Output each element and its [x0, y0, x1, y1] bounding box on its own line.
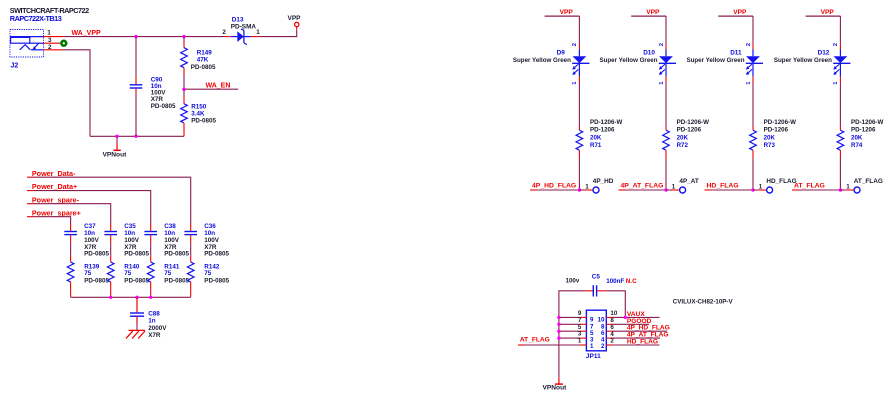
- capacitor C37: [64, 224, 77, 256]
- svg-text:PD-1206: PD-1206: [764, 127, 789, 134]
- value label C35: [124, 223, 149, 258]
- wire VPP to D10: [665, 16, 667, 44]
- value label R72: [677, 119, 709, 149]
- junction at R149 top: [182, 35, 185, 38]
- svg-text:VPP: VPP: [560, 9, 574, 16]
- LED D9: [572, 50, 589, 77]
- resistor R141: [147, 256, 154, 297]
- svg-text:75: 75: [204, 270, 212, 277]
- value label R140: [124, 263, 149, 284]
- capacitor C90: [130, 37, 143, 137]
- resistor R139: [67, 256, 74, 297]
- svg-text:VPP: VPP: [646, 9, 660, 16]
- resistor R149: [181, 37, 188, 90]
- wire JP11 pin 9 to bus: [559, 316, 581, 318]
- svg-text:D10: D10: [643, 50, 655, 57]
- wire C5 to JP11 pin 10: [606, 291, 625, 318]
- svg-text:4P_HD_FLAG: 4P_HD_FLAG: [532, 183, 576, 190]
- svg-text:HD_FLAG: HD_FLAG: [627, 339, 658, 346]
- svg-text:4P_AT: 4P_AT: [679, 178, 699, 185]
- svg-text:C5: C5: [592, 273, 601, 280]
- wire 4P_HD_FLAG: [530, 189, 537, 191]
- svg-text:Power_spare-: Power_spare-: [32, 195, 80, 204]
- svg-text:75: 75: [84, 270, 92, 277]
- svg-text:AT_FLAG: AT_FLAG: [794, 183, 825, 190]
- svg-text:100nF: 100nF: [606, 278, 624, 285]
- svg-text:20K: 20K: [851, 134, 863, 141]
- svg-text:1: 1: [759, 183, 763, 190]
- wire D10 to R72: [665, 83, 667, 126]
- capacitor C35: [104, 224, 117, 256]
- svg-text:PD-0805: PD-0805: [151, 103, 176, 110]
- pin stub D12 pin 2: [839, 44, 841, 50]
- wire AT_FLAG: [792, 189, 799, 191]
- resistor R71: [576, 126, 583, 190]
- wire D13 to VPP port: [259, 29, 297, 36]
- wire JP11 pin 2 net HD_FLAG: [613, 344, 660, 346]
- svg-text:1: 1: [578, 338, 582, 345]
- value label C88: [148, 310, 167, 338]
- wire JP11 pin 5 to bus: [559, 330, 581, 332]
- pin stub JP11 pin 7: [581, 323, 587, 325]
- svg-text:WA_VPP: WA_VPP: [72, 30, 102, 37]
- pin stub JP11 pin 10: [606, 316, 612, 318]
- svg-text:CVILUX-CH82-10P-V: CVILUX-CH82-10P-V: [673, 298, 734, 305]
- svg-text:75: 75: [124, 270, 132, 277]
- pin stub D10 pin 2: [665, 44, 667, 50]
- resistor R150: [181, 89, 188, 136]
- pin stub JP11 pin 1: [581, 344, 587, 346]
- svg-text:1: 1: [585, 183, 589, 190]
- LED D10: [659, 50, 676, 77]
- resistor R140: [107, 256, 114, 297]
- junction WA_EN tap: [182, 88, 185, 91]
- capacitor C5: [586, 285, 607, 296]
- svg-text:20K: 20K: [590, 134, 602, 141]
- svg-text:D9: D9: [557, 50, 566, 57]
- wire VPP to D11: [752, 16, 754, 44]
- wire bottom rail left circuit: [90, 135, 184, 137]
- svg-text:1: 1: [47, 30, 51, 37]
- junction bus at JP11 pin 7: [557, 323, 560, 326]
- value label R73: [764, 119, 796, 149]
- pin stub port 4P_HD: [579, 189, 585, 191]
- svg-text:1: 1: [846, 183, 850, 190]
- wire VPP to D9: [578, 16, 580, 44]
- svg-text:2: 2: [746, 43, 752, 46]
- svg-text:2: 2: [222, 29, 226, 36]
- value label C36: [204, 223, 229, 258]
- port 4P_AT: [680, 187, 686, 193]
- value label R141: [164, 263, 189, 284]
- resistor R74: [837, 126, 844, 190]
- wire JP11 pin 1 to bus: [518, 344, 525, 346]
- svg-text:PD-1206: PD-1206: [590, 127, 615, 134]
- svg-text:2000V: 2000V: [148, 325, 167, 332]
- svg-text:PD-0805: PD-0805: [124, 251, 149, 258]
- svg-text:D11: D11: [730, 50, 742, 57]
- wire D9 to R71: [578, 83, 580, 126]
- svg-text:VPP: VPP: [288, 15, 302, 22]
- junction VPNout tap: [115, 135, 118, 138]
- svg-text:Super Yellow Green: Super Yellow Green: [774, 57, 832, 64]
- wire JP11 pin 8 net PGOOD: [613, 323, 650, 325]
- power symbol VPP for D11: [718, 9, 753, 16]
- wire JP11 pin 7 to bus: [559, 323, 581, 325]
- value label C90: [151, 76, 176, 109]
- svg-text:1n: 1n: [148, 317, 156, 324]
- pin stub JP11 pin 8: [606, 323, 612, 325]
- svg-text:VPP: VPP: [733, 9, 747, 16]
- junction bus at JP11 pin 5: [557, 330, 560, 333]
- pin stub D11 pin 2: [752, 44, 754, 50]
- svg-text:PD-0805: PD-0805: [191, 117, 216, 124]
- port AT_FLAG: [854, 187, 860, 193]
- svg-text:AT_FLAG: AT_FLAG: [520, 337, 550, 344]
- svg-text:2: 2: [601, 343, 605, 350]
- wire Power_spare-: [27, 203, 34, 205]
- wire J2-2 to bottom rail: [63, 50, 90, 137]
- junction bank rail at C35: [109, 296, 112, 299]
- svg-text:1: 1: [590, 343, 594, 350]
- wire JP11 pin 10 net VAUX: [613, 316, 660, 318]
- svg-text:4P_HD: 4P_HD: [593, 178, 614, 185]
- pin stub JP11 pin 6: [606, 330, 612, 332]
- value label R149: [191, 50, 216, 71]
- svg-text:PD-1206-W: PD-1206-W: [851, 119, 883, 126]
- svg-text:PD-1206-W: PD-1206-W: [590, 119, 622, 126]
- svg-text:D12: D12: [818, 50, 830, 57]
- connector JP11 body: [586, 310, 606, 351]
- svg-text:VPNout: VPNout: [543, 385, 568, 392]
- junction bus at JP11 pin 9: [557, 316, 560, 319]
- svg-text:Power_Data-: Power_Data-: [32, 169, 76, 178]
- power symbol VPP for D9: [545, 9, 580, 16]
- pin stub D13 pin 1: [251, 36, 259, 38]
- capacitor C38: [144, 224, 157, 256]
- svg-text:WA_EN: WA_EN: [206, 83, 231, 90]
- svg-text:75: 75: [164, 270, 172, 277]
- pin stub JP11 pin 4: [606, 337, 612, 339]
- svg-text:20K: 20K: [764, 134, 776, 141]
- pin stub D13 pin 2: [225, 36, 231, 38]
- port VPP top-left: [296, 27, 298, 29]
- svg-text:10n: 10n: [204, 230, 215, 237]
- junction C90 bottom: [134, 135, 137, 138]
- diode D13 TVS: [231, 29, 251, 45]
- value label R150: [191, 104, 216, 125]
- svg-text:1: 1: [256, 29, 260, 36]
- pin stub J2-1: [44, 36, 63, 38]
- svg-text:J2: J2: [11, 62, 19, 69]
- svg-text:AT_FLAG: AT_FLAG: [854, 178, 883, 185]
- wire D12 to R74: [839, 83, 841, 126]
- pin stub JP11 pin 2: [606, 344, 612, 346]
- power symbol VPNout left: [103, 136, 128, 158]
- wire WA_VPP main horizontal: [63, 36, 225, 38]
- pin stub D11 pin 1: [752, 76, 754, 83]
- junction bank rail at C38: [149, 296, 152, 299]
- svg-text:D13: D13: [232, 16, 244, 23]
- svg-text:4P_AT_FLAG: 4P_AT_FLAG: [621, 183, 664, 190]
- svg-text:Super Yellow Green: Super Yellow Green: [687, 57, 745, 64]
- port HD_FLAG: [767, 187, 773, 193]
- svg-text:100v: 100v: [566, 277, 580, 284]
- resistor R72: [663, 126, 670, 190]
- junction C5 branch at pin 10 wire: [624, 316, 627, 319]
- no-connect marker on J2 pin 3: [61, 41, 66, 46]
- wire Power_spare+: [27, 216, 34, 218]
- junction 4P_HD_FLAG at R71: [578, 188, 581, 191]
- junction bank rail at C88: [135, 296, 138, 299]
- svg-text:PD-1206: PD-1206: [851, 127, 876, 134]
- svg-text:PD-0805: PD-0805: [204, 278, 229, 285]
- junction bus at JP11 pin 3: [557, 336, 560, 339]
- svg-text:Super Yellow Green: Super Yellow Green: [513, 57, 571, 64]
- capacitor C88: [130, 297, 144, 330]
- svg-text:2: 2: [572, 43, 578, 46]
- pin stub D12 pin 1: [839, 76, 841, 83]
- svg-text:VPNout: VPNout: [103, 151, 128, 158]
- svg-text:10n: 10n: [84, 230, 95, 237]
- pin stub port 4P_AT: [666, 189, 672, 191]
- wire VPNout bus to C5: [559, 291, 586, 378]
- port 4P_HD: [593, 187, 599, 193]
- svg-text:N.C: N.C: [626, 278, 637, 285]
- junction at C90 top: [134, 35, 137, 38]
- wire JP11 pin 4 net 4P_AT_FLAG: [613, 337, 661, 339]
- svg-text:Power_Data+: Power_Data+: [32, 182, 77, 191]
- svg-text:X7R: X7R: [148, 332, 161, 339]
- svg-text:HD_FLAG: HD_FLAG: [766, 178, 796, 185]
- value label R139: [84, 263, 109, 284]
- value label C38: [164, 223, 189, 258]
- svg-text:20K: 20K: [677, 134, 689, 141]
- junction 4P_AT_FLAG at R72: [664, 188, 667, 191]
- svg-text:1: 1: [672, 183, 676, 190]
- svg-text:HD_FLAG: HD_FLAG: [707, 183, 739, 190]
- value label R74: [851, 119, 883, 149]
- svg-text:R71: R71: [590, 142, 602, 149]
- value label C37: [84, 223, 109, 258]
- svg-text:PD-0805: PD-0805: [164, 251, 189, 258]
- svg-text:PD-0805: PD-0805: [191, 64, 216, 71]
- wire JP11 pin 6 net 4P_HD_FLAG: [613, 330, 668, 332]
- svg-text:PD-1206-W: PD-1206-W: [677, 119, 709, 126]
- resistor R73: [750, 126, 757, 190]
- pin stub JP11 pin 9: [581, 316, 587, 318]
- svg-text:R149: R149: [197, 50, 213, 57]
- wire JP11 pin 3 to bus: [559, 337, 581, 339]
- svg-text:Power_spare+: Power_spare+: [32, 208, 81, 217]
- svg-text:PD-1206-W: PD-1206-W: [764, 119, 796, 126]
- svg-text:10n: 10n: [124, 230, 135, 237]
- wire HD_FLAG: [705, 189, 712, 191]
- wire Power_Data+: [27, 190, 34, 192]
- pin stub JP11 pin 3: [581, 337, 587, 339]
- svg-text:10n: 10n: [164, 230, 175, 237]
- svg-text:47K: 47K: [197, 57, 209, 64]
- power symbol VPP for D12: [806, 9, 841, 16]
- svg-text:JP11: JP11: [586, 353, 601, 360]
- wire 4P_AT_FLAG: [619, 189, 626, 191]
- pin stub D10 pin 1: [665, 76, 667, 83]
- svg-text:2: 2: [659, 43, 665, 46]
- svg-text:PD-0805: PD-0805: [84, 251, 109, 258]
- svg-text:R73: R73: [764, 142, 776, 149]
- pin stub J2-2: [44, 49, 63, 51]
- svg-text:R74: R74: [851, 142, 863, 149]
- resistor R142: [187, 256, 194, 297]
- LED D12: [833, 50, 850, 77]
- pin stub J2-3: [44, 42, 61, 44]
- value label R71: [590, 119, 622, 149]
- junction HD_FLAG at R73: [751, 188, 754, 191]
- svg-text:PD-SMA: PD-SMA: [231, 24, 257, 31]
- svg-text:PD-0805: PD-0805: [84, 278, 109, 285]
- pin stub JP11 pin 5: [581, 330, 587, 332]
- svg-text:R72: R72: [677, 142, 689, 149]
- wire cap bank bottom rail: [71, 296, 191, 298]
- pin stub D9 pin 1: [578, 76, 580, 83]
- svg-text:PD-1206: PD-1206: [677, 127, 702, 134]
- svg-text:PD-0805: PD-0805: [124, 278, 149, 285]
- capacitor C36: [184, 224, 197, 256]
- chassis ground below C88: [126, 330, 145, 338]
- connector J2 barrel-jack symbol: [10, 30, 44, 58]
- svg-text:RAPC722X-TB13: RAPC722X-TB13: [10, 14, 62, 23]
- pin stub D9 pin 2: [578, 44, 580, 50]
- wire Power_Data-: [27, 176, 34, 178]
- LED D11: [746, 50, 763, 77]
- svg-text:PD-0805: PD-0805: [164, 278, 189, 285]
- svg-text:VPP: VPP: [821, 9, 835, 16]
- power symbol VPNout right: [543, 377, 568, 391]
- wire WA_EN: [184, 88, 238, 90]
- pin stub port HD_FLAG: [753, 189, 759, 191]
- svg-text:PD-0805: PD-0805: [204, 251, 229, 258]
- svg-text:Super Yellow Green: Super Yellow Green: [600, 57, 658, 64]
- wire VPP to D12: [839, 16, 841, 44]
- junction AT_FLAG at R74: [839, 188, 842, 191]
- svg-text:2: 2: [610, 338, 614, 345]
- pin stub port AT_FLAG: [840, 189, 846, 191]
- svg-text:2: 2: [833, 43, 839, 46]
- power symbol VPP for D10: [631, 9, 666, 16]
- wire D11 to R73: [752, 83, 754, 126]
- value label R142: [204, 263, 229, 284]
